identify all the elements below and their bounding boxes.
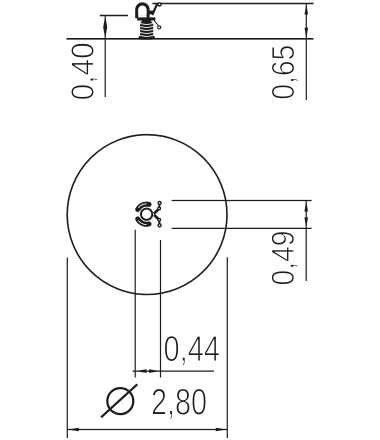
dimension text 0,49 — [271, 232, 297, 285]
dimension line 0,44 — [133, 370, 215, 372]
fir tree stem silhouette — [139, 21, 155, 40]
lower lever arm — [154, 21, 158, 26]
dimension line 0,40 — [104, 16, 106, 98]
lower wing — [138, 219, 149, 224]
arrow up 0,65 — [305, 4, 309, 15]
leader line top (0,49) — [172, 200, 312, 202]
eyelet 4 — [158, 224, 161, 227]
dimension line diameter — [67, 429, 227, 431]
eyelet 1 — [158, 202, 161, 205]
diameter symbol — [101, 384, 137, 417]
lower link bar — [158, 220, 160, 226]
arrow down 0,65 — [305, 28, 309, 39]
lower diagonal connector — [154, 215, 159, 220]
top extension line for 0,65 — [152, 3, 313, 5]
dimension text 0,40 — [71, 43, 97, 99]
loop arch outline — [135, 2, 149, 18]
arrow left diameter — [68, 428, 79, 432]
arrow left 0,44 — [135, 369, 146, 373]
surface baseline (side view) — [67, 38, 314, 40]
arrow right 0,44 — [149, 369, 160, 373]
arrow right diameter — [216, 428, 227, 432]
extension tick for 0,40 — [100, 15, 128, 17]
extension line diameter left — [66, 258, 68, 439]
lower lever eye — [158, 26, 161, 29]
arrow down 0,49 — [304, 217, 308, 228]
dimension line 0,65 — [305, 4, 307, 101]
lower wing slit — [138, 221, 146, 225]
clip top view group — [138, 202, 161, 227]
arrow up 0,49 — [304, 201, 308, 212]
upper diagonal connector — [154, 209, 159, 214]
connector stub arch to lever — [149, 11, 154, 15]
leader line bottom (0,49) — [172, 227, 312, 229]
big circle (top view outline) — [67, 135, 227, 295]
flange bar — [137, 17, 155, 20]
upper lever arm — [152, 4, 157, 15]
extension line 0,44 right — [160, 240, 162, 378]
eyelet 3 — [158, 219, 161, 222]
arrow diamond 0,40 — [103, 16, 107, 39]
upper lever eye — [158, 3, 161, 6]
eyelet 2 — [158, 207, 161, 210]
dimension text 2,80 — [152, 389, 205, 420]
upper wing slit — [138, 204, 146, 208]
dimension text 0,65 — [272, 46, 298, 99]
center ring — [141, 209, 152, 220]
dimension text 0,44 — [165, 336, 219, 366]
loop inner window — [138, 6, 146, 16]
fir tree rib gaps — [140, 24, 153, 37]
clip side profile group — [135, 2, 161, 39]
extension line diameter right — [226, 257, 228, 438]
upper wing — [138, 204, 149, 209]
upper link bar — [158, 203, 160, 209]
dimension line 0,49 — [305, 201, 307, 282]
extension line 0,44 left — [134, 230, 136, 378]
